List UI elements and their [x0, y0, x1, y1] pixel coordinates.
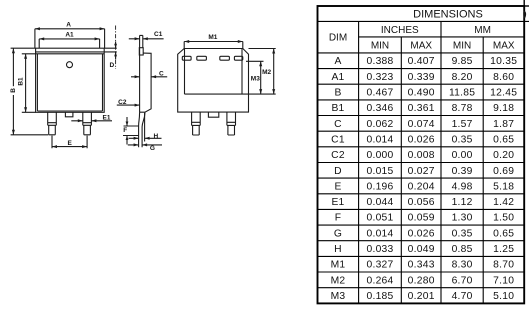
- svg-text:0.051: 0.051: [366, 213, 393, 224]
- dim M2 extension line: [249, 48, 276, 50]
- svg-text:0.39: 0.39: [452, 166, 473, 177]
- svg-text:F: F: [335, 213, 342, 224]
- back view center stub: [208, 112, 218, 117]
- back view right lead: [227, 112, 236, 135]
- dim D dash-dot line: [115, 26, 117, 70]
- svg-text:DIMENSIONS: DIMENSIONS: [413, 9, 483, 21]
- svg-text:0.407: 0.407: [408, 56, 435, 67]
- row A: [334, 56, 517, 67]
- dim D arrow shafts: [115, 42, 117, 60]
- table top border extension right: [524, 5, 529, 7]
- dim B line: [12, 48, 14, 135]
- svg-text:7.10: 7.10: [493, 275, 514, 286]
- svg-text:DIM: DIM: [329, 33, 347, 44]
- dim A arrowheads: [35, 27, 105, 30]
- dim G line: [128, 144, 162, 146]
- column line INCHES/MM: [440, 21, 442, 303]
- row H: [334, 244, 514, 255]
- row C1: [331, 135, 514, 146]
- svg-text:B: B: [334, 88, 341, 99]
- svg-text:C2: C2: [331, 150, 345, 161]
- svg-text:D: D: [109, 62, 114, 69]
- svg-text:1.12: 1.12: [452, 197, 473, 208]
- svg-text:0.033: 0.033: [366, 244, 393, 255]
- svg-text:0.65: 0.65: [493, 135, 514, 146]
- svg-text:MIN: MIN: [371, 41, 389, 52]
- back view outline: [178, 49, 249, 113]
- front view right lead: [83, 112, 92, 135]
- svg-text:8.30: 8.30: [452, 260, 473, 271]
- svg-text:0.346: 0.346: [366, 103, 393, 114]
- row A1: [331, 72, 514, 83]
- svg-text:4.98: 4.98: [452, 181, 473, 192]
- front view left lead: [48, 112, 57, 135]
- back view slot 4: [234, 56, 242, 60]
- svg-text:5.10: 5.10: [493, 291, 514, 302]
- front view tab strip lines: [36, 52, 105, 54]
- svg-text:10.35: 10.35: [490, 56, 517, 67]
- dim C1 line: [129, 38, 164, 40]
- row M3: [331, 291, 515, 302]
- svg-text:0.074: 0.074: [408, 119, 435, 130]
- dimensions table outer border: [318, 6, 525, 303]
- svg-text:E: E: [68, 140, 73, 147]
- back view slot 3: [220, 56, 230, 60]
- dim M2 arrowheads: [272, 49, 275, 95]
- dim E1 leader lines: [71, 120, 112, 122]
- svg-text:M1: M1: [208, 34, 217, 41]
- front view center stub: [65, 112, 73, 117]
- svg-text:A1: A1: [65, 31, 74, 38]
- svg-text:6.70: 6.70: [452, 275, 473, 286]
- svg-text:E1: E1: [331, 197, 344, 208]
- svg-text:0.062: 0.062: [366, 119, 393, 130]
- dim F reference lines: [123, 126, 139, 136]
- side view tab: [140, 35, 143, 47]
- svg-text:C: C: [159, 70, 164, 77]
- svg-text:0.467: 0.467: [366, 88, 393, 99]
- svg-text:0.85: 0.85: [452, 244, 473, 255]
- svg-text:0.490: 0.490: [408, 88, 435, 99]
- svg-text:0.059: 0.059: [408, 213, 435, 224]
- dim D arrowheads: [114, 44, 117, 57]
- label B backing: [10, 86, 17, 95]
- dim C2 arrowhead: [135, 104, 140, 107]
- dim C line: [131, 76, 167, 78]
- dim A extension lines: [35, 29, 105, 48]
- svg-text:0.014: 0.014: [366, 135, 393, 146]
- svg-text:C2: C2: [118, 99, 127, 106]
- dim M3 extension line: [246, 60, 264, 62]
- svg-text:0.327: 0.327: [366, 260, 393, 271]
- row G: [334, 228, 514, 239]
- back view left lead: [192, 112, 201, 135]
- svg-text:1.25: 1.25: [493, 244, 514, 255]
- row E1: [331, 197, 514, 208]
- row C2: [331, 150, 514, 161]
- dim M1 line: [184, 41, 243, 43]
- side view lead bend: [139, 112, 145, 147]
- svg-text:M1: M1: [331, 260, 346, 271]
- dim M1 extension lines: [184, 42, 243, 49]
- dim A line: [35, 28, 105, 30]
- svg-text:1.87: 1.87: [493, 119, 514, 130]
- dim M3 arrowheads: [259, 61, 262, 94]
- dim E line: [52, 146, 87, 148]
- back view tab edges: [185, 49, 243, 95]
- svg-text:0.343: 0.343: [408, 260, 435, 271]
- svg-text:C: C: [334, 119, 342, 130]
- svg-text:D: D: [334, 166, 342, 177]
- svg-text:0.027: 0.027: [408, 166, 435, 177]
- side view tab step: [139, 48, 143, 55]
- svg-text:1.30: 1.30: [452, 213, 473, 224]
- dim H extension line: [144, 113, 146, 142]
- svg-text:11.85: 11.85: [449, 88, 475, 99]
- row C: [334, 119, 514, 130]
- dim B1 line: [25, 54, 27, 113]
- svg-text:B1: B1: [331, 103, 344, 114]
- row B1: [331, 103, 514, 114]
- svg-text:H: H: [334, 244, 342, 255]
- dim C1 arrowheads: [135, 37, 148, 40]
- row lines: [318, 53, 525, 288]
- row E: [334, 181, 514, 192]
- dim A1 extension lines: [39, 39, 99, 48]
- svg-text:8.60: 8.60: [493, 72, 514, 83]
- back view slot 2: [197, 56, 207, 60]
- svg-text:5.18: 5.18: [493, 181, 514, 192]
- dim E arrowheads: [52, 145, 87, 148]
- front view mounting hole: [67, 62, 73, 68]
- svg-text:M3: M3: [331, 291, 346, 302]
- svg-text:0.026: 0.026: [408, 135, 435, 146]
- dim G arrowheads: [134, 143, 148, 146]
- table header underline + extension: [318, 20, 530, 22]
- svg-text:C1: C1: [331, 135, 345, 146]
- svg-text:0.044: 0.044: [366, 197, 393, 208]
- svg-text:9.18: 9.18: [493, 103, 514, 114]
- dim B extension lines: [11, 48, 49, 135]
- svg-text:E1: E1: [103, 114, 111, 121]
- svg-text:0.20: 0.20: [493, 150, 514, 161]
- ink blot on right frame line: [523, 11, 526, 19]
- dim A1 arrowheads: [39, 37, 99, 40]
- svg-text:0.69: 0.69: [493, 166, 514, 177]
- svg-text:8.20: 8.20: [452, 72, 473, 83]
- column line MIN/MAX inches: [400, 37, 402, 304]
- svg-text:A1: A1: [331, 72, 344, 83]
- svg-text:0.264: 0.264: [366, 275, 393, 286]
- back view slot 1: [182, 56, 191, 60]
- dim B1 extension lines: [22, 54, 36, 113]
- svg-text:0.388: 0.388: [366, 56, 393, 67]
- svg-text:MIN: MIN: [453, 41, 471, 52]
- svg-text:0.65: 0.65: [493, 228, 514, 239]
- svg-text:G: G: [334, 228, 342, 239]
- svg-text:G: G: [150, 145, 155, 152]
- dim D extension lines: [104, 48, 117, 52]
- row B: [334, 88, 517, 99]
- svg-text:4.70: 4.70: [452, 291, 473, 302]
- svg-text:A: A: [334, 56, 341, 67]
- svg-text:MAX: MAX: [493, 41, 515, 52]
- row M1: [331, 260, 515, 271]
- page frame vertical line above table: [523, 0, 525, 6]
- dim A1 line: [39, 38, 99, 40]
- svg-text:0.014: 0.014: [366, 228, 393, 239]
- svg-text:A: A: [66, 22, 71, 29]
- front view body outline: [36, 48, 105, 112]
- dim M3 line: [260, 61, 262, 94]
- svg-text:MAX: MAX: [410, 41, 432, 52]
- dim C2 leader: [117, 104, 140, 106]
- svg-text:0.35: 0.35: [452, 135, 473, 146]
- svg-text:M2: M2: [331, 275, 346, 286]
- svg-text:0.026: 0.026: [408, 228, 435, 239]
- svg-text:0.185: 0.185: [366, 291, 393, 302]
- svg-text:8.70: 8.70: [493, 260, 514, 271]
- dim H line: [129, 137, 162, 139]
- svg-text:0.361: 0.361: [408, 103, 435, 114]
- svg-text:1.42: 1.42: [493, 197, 514, 208]
- svg-text:MM: MM: [474, 25, 491, 36]
- svg-text:INCHES: INCHES: [381, 25, 419, 36]
- dim F arrowheads: [126, 122, 129, 141]
- svg-text:E: E: [334, 181, 341, 192]
- back view tab bottom line: [185, 93, 276, 95]
- svg-text:9.85: 9.85: [452, 56, 473, 67]
- svg-text:0.323: 0.323: [366, 72, 393, 83]
- svg-text:0.35: 0.35: [452, 228, 473, 239]
- dim F arrow shafts: [126, 117, 128, 145]
- svg-text:M2: M2: [262, 69, 271, 76]
- dim H arrowheads: [134, 137, 150, 140]
- svg-text:0.000: 0.000: [366, 150, 393, 161]
- svg-text:C1: C1: [154, 31, 163, 38]
- svg-text:12.45: 12.45: [490, 88, 517, 99]
- svg-text:1.50: 1.50: [493, 213, 514, 224]
- row D: [334, 166, 514, 177]
- svg-text:0.056: 0.056: [408, 197, 435, 208]
- svg-text:0.339: 0.339: [408, 72, 435, 83]
- row line under INCHES/MM: [359, 36, 525, 38]
- dim E1 arrowheads: [78, 119, 97, 122]
- front view body bevel lines: [37, 54, 102, 111]
- side view body: [140, 48, 152, 113]
- svg-text:0.00: 0.00: [452, 150, 473, 161]
- svg-text:B1: B1: [18, 77, 25, 86]
- svg-text:0.280: 0.280: [408, 275, 435, 286]
- dim B1 arrowheads: [24, 54, 27, 113]
- svg-text:0.201: 0.201: [408, 291, 435, 302]
- svg-text:M3: M3: [251, 76, 260, 83]
- svg-text:0.015: 0.015: [366, 166, 393, 177]
- dim E extension lines: [52, 136, 87, 149]
- svg-text:0.008: 0.008: [408, 150, 435, 161]
- svg-text:H: H: [153, 133, 158, 140]
- svg-text:0.196: 0.196: [366, 181, 393, 192]
- svg-text:B: B: [10, 88, 17, 93]
- dim C arrowheads: [135, 75, 157, 78]
- column line DIM: [358, 21, 360, 303]
- column line MIN/MAX mm: [482, 37, 484, 304]
- svg-text:F: F: [123, 127, 127, 134]
- svg-text:1.57: 1.57: [452, 119, 473, 130]
- dim B arrowheads: [12, 48, 15, 135]
- svg-text:0.204: 0.204: [408, 181, 435, 192]
- dim M1 arrowheads: [184, 40, 243, 43]
- svg-text:8.78: 8.78: [452, 103, 473, 114]
- row F: [335, 213, 515, 224]
- row M2: [331, 275, 515, 286]
- svg-text:0.049: 0.049: [408, 244, 435, 255]
- dim M2 line: [273, 49, 275, 95]
